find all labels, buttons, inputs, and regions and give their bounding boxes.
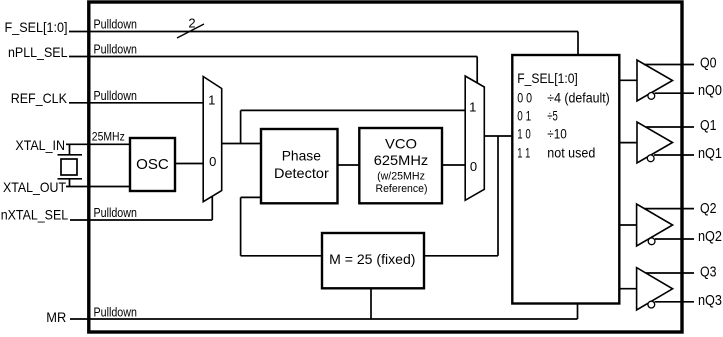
svg-text:nXTAL_SEL: nXTAL_SEL bbox=[1, 206, 69, 222]
wire REF_CLK to mux U1 input 1 bbox=[69, 102, 203, 104]
VCO U4 bbox=[359, 128, 442, 203]
wire nXTAL_SEL select rise to mux U1 bbox=[211, 196, 213, 220]
svg-text:1 1: 1 1 bbox=[517, 145, 530, 160]
mux U2 (PLL bypass select) bbox=[465, 76, 484, 200]
pin label Q0 bbox=[700, 56, 717, 72]
wire divider to buffer Q1 bbox=[619, 142, 637, 144]
pin nPLL_SEL bbox=[8, 44, 68, 60]
pin label nQ0 bbox=[698, 83, 722, 99]
buffer Q0 bbox=[637, 60, 673, 101]
bus width slash bbox=[177, 24, 204, 38]
wire Q0 output bbox=[644, 64, 694, 66]
wire MR bbox=[70, 318, 578, 320]
svg-text:1: 1 bbox=[208, 92, 215, 107]
svg-text:VCO: VCO bbox=[385, 135, 417, 151]
svg-text:Q3: Q3 bbox=[700, 265, 717, 281]
svg-text:Pulldown: Pulldown bbox=[94, 17, 137, 32]
wire mux U1 output to phase detector bbox=[222, 143, 261, 145]
svg-text:nQ0: nQ0 bbox=[698, 83, 722, 99]
svg-text:Pulldown: Pulldown bbox=[94, 88, 137, 103]
pin XTAL_OUT bbox=[3, 179, 66, 195]
svg-text:Q0: Q0 bbox=[700, 56, 717, 72]
svg-text:OSC: OSC bbox=[136, 156, 169, 173]
output divider block with F_SEL table bbox=[512, 55, 619, 304]
wire nQ0 output bbox=[655, 92, 694, 94]
svg-text:2: 2 bbox=[188, 16, 195, 31]
pulldown label (F_SEL) bbox=[94, 17, 137, 32]
svg-text:M = 25 (fixed): M = 25 (fixed) bbox=[329, 251, 415, 267]
svg-text:1 0: 1 0 bbox=[517, 127, 531, 142]
buffer Q3 bbox=[637, 268, 673, 310]
pulldown label (nXTAL_SEL) bbox=[94, 205, 137, 220]
wire MR rise to divider block bbox=[577, 304, 579, 320]
svg-text:Pulldown: Pulldown bbox=[94, 42, 137, 57]
wire OSC output to mux U1 input 0 bbox=[175, 163, 203, 165]
svg-text:Pulldown: Pulldown bbox=[94, 205, 137, 220]
inversion bubble Q1 bbox=[647, 155, 654, 162]
pin label Q1 bbox=[700, 118, 717, 134]
svg-text:Reference): Reference) bbox=[376, 183, 428, 195]
mux U1 (reference select) bbox=[203, 77, 222, 202]
pulldown label (MR) bbox=[94, 304, 137, 319]
svg-text:0: 0 bbox=[470, 159, 477, 174]
svg-text:÷10: ÷10 bbox=[547, 127, 567, 142]
inversion bubble Q3 bbox=[648, 301, 655, 308]
svg-text:not used: not used bbox=[547, 145, 595, 160]
svg-text:625MHz: 625MHz bbox=[374, 152, 428, 168]
wire Q2 output bbox=[644, 208, 694, 210]
wire divider to buffer Q3 bbox=[619, 288, 637, 290]
svg-text:XTAL_IN: XTAL_IN bbox=[15, 137, 65, 153]
pin label Q3 bbox=[700, 265, 717, 281]
pin nXTAL_SEL bbox=[1, 206, 69, 222]
wire divider to buffer Q0 bbox=[619, 79, 637, 81]
svg-text:Phase: Phase bbox=[282, 147, 321, 163]
svg-text:0: 0 bbox=[209, 154, 216, 169]
wire feedback branch down bbox=[497, 136, 499, 256]
wire nQ2 output bbox=[655, 238, 694, 240]
svg-text:nQ3: nQ3 bbox=[698, 293, 722, 309]
wire divider to buffer Q2 bbox=[619, 224, 637, 226]
wire nPLL_SEL select drop to mux U2 bbox=[476, 57, 478, 84]
svg-text:XTAL_OUT: XTAL_OUT bbox=[3, 179, 66, 195]
wire F_SEL bus bbox=[69, 31, 578, 33]
wire feedback to M divider input bbox=[424, 255, 498, 257]
svg-text:F_SEL[1:0]: F_SEL[1:0] bbox=[5, 19, 68, 35]
svg-text:nPLL_SEL: nPLL_SEL bbox=[8, 44, 68, 60]
phase detector U3 bbox=[261, 129, 338, 203]
svg-text:(w/25MHz: (w/25MHz bbox=[377, 170, 425, 182]
feedback divider M = 25 bbox=[322, 233, 424, 288]
buffer Q2 bbox=[637, 204, 673, 246]
buffer Q1 bbox=[637, 122, 673, 163]
wire nPLL_SEL bbox=[69, 56, 477, 58]
wire feedback from M divider bbox=[241, 255, 322, 257]
wire PLL bypass to mux U2 input 1 bbox=[241, 109, 466, 111]
wire nQ1 output bbox=[654, 154, 694, 156]
pin XTAL_IN bbox=[15, 137, 65, 153]
svg-text:nQ2: nQ2 bbox=[698, 229, 722, 245]
wire MR branch to M divider bbox=[370, 288, 372, 319]
inversion bubble Q0 bbox=[648, 93, 655, 100]
svg-text:÷4 (default): ÷4 (default) bbox=[547, 90, 610, 105]
pin REF_CLK bbox=[11, 90, 68, 106]
bus width label 2 bbox=[188, 16, 195, 31]
pin label nQ3 bbox=[698, 293, 722, 309]
svg-text:Q1: Q1 bbox=[700, 118, 717, 134]
wire mux U2 output to divider block bbox=[484, 135, 512, 137]
svg-text:Pulldown: Pulldown bbox=[94, 304, 137, 319]
wire VCO to mux U2 input 0 bbox=[442, 164, 465, 166]
wire feedback into phase detector bbox=[241, 196, 261, 198]
svg-text:nQ1: nQ1 bbox=[698, 146, 722, 162]
svg-text:Detector: Detector bbox=[274, 165, 329, 181]
svg-text:1: 1 bbox=[469, 100, 476, 115]
wire feedback vertical bbox=[240, 197, 242, 255]
inversion bubble Q2 bbox=[648, 238, 655, 245]
25MHz value label bbox=[92, 130, 125, 144]
wire XTAL_IN to OSC bbox=[66, 143, 131, 145]
crystal Y1 bbox=[58, 144, 83, 186]
oscillator OSC bbox=[130, 138, 175, 191]
wire junction rise for PLL bypass bbox=[240, 110, 242, 143]
pin label nQ1 bbox=[698, 146, 722, 162]
wire Q3 output bbox=[646, 272, 694, 274]
wire phase detector to VCO bbox=[338, 164, 360, 166]
pulldown label (nPLL_SEL) bbox=[94, 42, 137, 57]
wire F_SEL bus vertical drop to divider block bbox=[577, 32, 579, 57]
svg-text:÷5: ÷5 bbox=[547, 109, 558, 124]
wire nQ3 output bbox=[655, 301, 694, 303]
pulldown label (REF_CLK) bbox=[94, 88, 137, 103]
wire XTAL_OUT to OSC bbox=[66, 186, 131, 188]
svg-text:Q2: Q2 bbox=[700, 201, 717, 217]
svg-text:0 0: 0 0 bbox=[517, 90, 532, 105]
svg-text:F_SEL[1:0]: F_SEL[1:0] bbox=[517, 71, 578, 86]
svg-text:0 1: 0 1 bbox=[517, 109, 531, 124]
wire Q1 output bbox=[646, 126, 694, 128]
svg-text:REF_CLK: REF_CLK bbox=[11, 90, 68, 106]
wire nXTAL_SEL bbox=[70, 219, 212, 221]
svg-text:25MHz: 25MHz bbox=[92, 130, 125, 144]
pin F_SEL[1:0] bbox=[5, 19, 68, 35]
pin label nQ2 bbox=[698, 229, 722, 245]
pin label Q2 bbox=[700, 201, 717, 217]
svg-text:MR: MR bbox=[46, 309, 66, 325]
pin MR bbox=[46, 309, 66, 325]
